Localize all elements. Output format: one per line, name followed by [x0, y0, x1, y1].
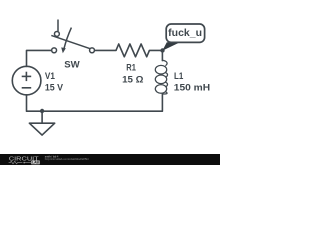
wire — [149, 49, 162, 51]
switch arrowhead — [61, 47, 66, 53]
logo wire — [24, 162, 31, 164]
logo LAB chip — [31, 161, 39, 165]
annotation flag tail — [162, 42, 180, 51]
svg-text:15 V: 15 V — [45, 82, 64, 93]
node junction dot (R1-L1) — [160, 48, 164, 52]
annotation flag box fuck_u — [166, 24, 204, 42]
wire — [95, 49, 116, 51]
svg-text:LAB: LAB — [32, 161, 39, 165]
svg-text:http://circuitlab.com/c2ab92sd: http://circuitlab.com/c2ab92sd3df5br — [45, 157, 89, 161]
switch SW — [51, 20, 94, 53]
svg-text:fuck_u: fuck_u — [168, 28, 202, 39]
logo wire dot — [23, 162, 25, 164]
wire — [27, 94, 163, 111]
footer bar — [0, 154, 220, 165]
svg-text:150 mH: 150 mH — [174, 82, 211, 93]
node junction dot (ground tap) — [40, 109, 44, 113]
wire — [161, 50, 163, 60]
svg-text:SW: SW — [64, 59, 80, 70]
logo resistor squiggle — [9, 161, 23, 164]
svg-text:15 Ω: 15 Ω — [122, 74, 144, 85]
svg-text:V1: V1 — [45, 70, 55, 81]
wire — [27, 50, 52, 66]
voltage source V1 — [12, 66, 41, 95]
inductor L1 — [155, 60, 167, 94]
svg-text:L1: L1 — [174, 70, 183, 81]
ground — [29, 111, 54, 135]
resistor R1 — [116, 44, 149, 57]
svg-text:R1: R1 — [126, 62, 136, 73]
